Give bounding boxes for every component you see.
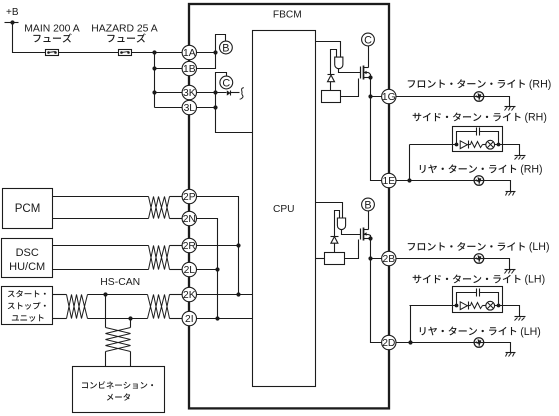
svg-text:(LH): (LH): [520, 326, 541, 338]
resistor (gate/sense): [322, 91, 341, 103]
capacitor branch in side unit: [457, 128, 499, 145]
pin 2N: [182, 211, 196, 225]
wire CAN-L 2N: [197, 219, 218, 319]
label HS-CAN: [100, 277, 140, 288]
svg-text:MAIN 200 A: MAIN 200 A: [24, 23, 80, 34]
svg-text:HAZARD 25 A: HAZARD 25 A: [91, 23, 157, 34]
connector circle B (near 1A): [220, 41, 233, 54]
wire MOSFET drain to connector: [368, 46, 370, 68]
pin 3K: [182, 85, 196, 99]
driver buffer (output stage): [335, 57, 343, 69]
side turn light unit (RH) box: [453, 127, 503, 152]
connector circle B: [362, 198, 375, 211]
label HAZARD 25 A: [91, 23, 157, 34]
junction MOSFET source: [368, 236, 372, 240]
svg-text:B: B: [222, 42, 229, 54]
junction at output pin row: [368, 256, 372, 260]
CPU label: [273, 204, 295, 215]
junction +B: [10, 20, 14, 24]
twisted pair start stop left: [67, 295, 88, 319]
wire to pin 3L: [155, 107, 183, 109]
svg-text:1B: 1B: [183, 64, 196, 75]
label fuse 2: [107, 33, 145, 42]
svg-text:FBCM: FBCM: [273, 10, 302, 21]
junction right: [495, 304, 501, 308]
lamp rear turn RH: [474, 176, 484, 186]
wire to second output pin: [371, 97, 382, 181]
label rear turn light RH: [420, 164, 543, 176]
junction left: [455, 143, 459, 147]
wire PCM CAN-L: [53, 218, 183, 220]
LED lamp in side unit: [483, 301, 495, 310]
pin 2P: [182, 189, 196, 203]
junction 1A node: [213, 50, 217, 54]
svg-text:DSC: DSC: [16, 247, 39, 259]
wire lamp to ground: [484, 97, 510, 107]
wire rear lamp to ground: [484, 181, 511, 192]
start stop unit box: [2, 287, 53, 325]
svg-text:(RH): (RH): [525, 112, 547, 124]
zener diode gate clamp: [328, 75, 335, 91]
svg-text:PCM: PCM: [15, 203, 41, 215]
wire side unit to ground: [499, 306, 520, 317]
twisted pair meter: [106, 328, 131, 352]
svg-text:HU/CM: HU/CM: [9, 261, 45, 273]
wire zener clamp to driver input: [331, 50, 337, 75]
label side turn light LH: [413, 274, 545, 286]
wire source to output pin: [371, 78, 382, 97]
label side turn light RH: [413, 112, 547, 124]
wire branch up to side unit RH: [409, 145, 411, 181]
svg-text:2D: 2D: [382, 338, 395, 349]
wire to pin 3K: [152, 90, 182, 94]
svg-text:2I: 2I: [185, 314, 194, 325]
pin 2L: [182, 262, 196, 276]
twisted pair PCM: [149, 197, 170, 219]
wire 2D to rear lamp LH: [397, 342, 475, 344]
wire rear lamp to ground LH: [484, 343, 511, 353]
side turn light unit (LH) box: [453, 287, 503, 313]
wire source to output pin: [371, 239, 382, 259]
wire 2B to front lamp LH: [397, 258, 475, 260]
svg-text:1A: 1A: [183, 48, 196, 59]
svg-text:2R: 2R: [183, 241, 196, 252]
wire CPU output to driver input: [316, 42, 341, 58]
resistor zigzag in side unit: [471, 303, 483, 309]
junction 3L node: [213, 105, 217, 109]
svg-text:HS-CAN: HS-CAN: [100, 277, 140, 288]
wire 3L to internal node: [197, 107, 216, 109]
junction right: [495, 143, 501, 147]
svg-text:2L: 2L: [184, 265, 196, 276]
battery +B label: [6, 7, 19, 18]
pin 1E: [382, 173, 396, 187]
wire 2L: [197, 267, 220, 271]
wire to second output pin: [371, 259, 382, 343]
svg-text:(RH): (RH): [520, 164, 542, 176]
wire hook to connector C: [216, 73, 227, 93]
svg-text:(LH): (LH): [529, 241, 550, 253]
ground (side RH): [515, 156, 526, 160]
ground (side LH): [515, 317, 526, 321]
svg-text:1G: 1G: [382, 92, 396, 103]
junction MOSFET source: [368, 75, 372, 79]
MOSFET output transistor: [361, 66, 371, 80]
junction fuse output: [152, 50, 156, 54]
wire DSC CAN-L: [53, 269, 183, 271]
svg-text:CPU: CPU: [273, 204, 295, 215]
PCM label: [15, 203, 41, 215]
svg-text:(LH): (LH): [525, 274, 546, 286]
capacitor branch in side unit: [457, 289, 499, 306]
lamp front turn LH: [474, 254, 484, 264]
svg-text:3L: 3L: [184, 103, 196, 114]
pin 2D: [382, 335, 396, 349]
resistor (gate/sense): [325, 253, 345, 265]
pin 2R: [182, 238, 196, 252]
label front turn light LH: [408, 241, 550, 253]
wire driver output to gate: [339, 69, 361, 73]
wire PCM CAN-H: [53, 196, 183, 198]
wire branch up to side unit LH: [410, 306, 412, 343]
svg-text:2K: 2K: [183, 290, 196, 301]
LED lamp in side unit: [483, 140, 495, 149]
wire resistor to CPU sense: [316, 258, 325, 260]
svg-text:(RH): (RH): [529, 79, 551, 91]
svg-text:B: B: [364, 199, 371, 211]
label front turn light RH: [408, 79, 551, 91]
wire start stop CAN-L: [53, 318, 183, 320]
DSC HU/CM box: [2, 239, 53, 278]
fuse MAIN 200 A: [46, 50, 59, 56]
wire side unit to ground: [499, 145, 520, 156]
wire into side unit: [410, 305, 457, 307]
wire into side unit: [410, 144, 457, 146]
ground (front LH): [505, 270, 516, 274]
ground (front RH): [505, 107, 516, 111]
junction left: [455, 304, 459, 308]
wire 1G to front lamp RH: [397, 96, 475, 98]
wire 2R: [197, 243, 241, 247]
junction CAN-H meter branch: [103, 292, 107, 296]
ground (rear LH): [506, 353, 516, 357]
svg-text:C: C: [364, 34, 372, 46]
pin 2B: [382, 251, 396, 265]
wire resistor to gate: [345, 240, 359, 259]
wire resistor to gate: [341, 79, 359, 97]
wire 1E to rear lamp RH: [397, 180, 475, 182]
combination meter label: [82, 381, 153, 400]
diode in side unit: [460, 141, 470, 149]
FBCM module box: [189, 4, 389, 408]
MOSFET output transistor: [361, 228, 371, 241]
pin 1A: [182, 45, 196, 59]
svg-text:2P: 2P: [183, 192, 196, 203]
pin 3L: [182, 100, 196, 114]
wire feed bus down to 3L: [154, 53, 156, 108]
pin 2I: [182, 311, 196, 325]
pin 1B: [182, 61, 196, 75]
diode in side unit: [460, 302, 470, 310]
label fuse 1: [33, 33, 71, 42]
wire zener clamp to driver input: [335, 211, 340, 237]
lamp front turn RH: [474, 92, 484, 102]
junction at output pin row: [368, 94, 372, 98]
wire lamp to ground LH: [484, 259, 510, 270]
svg-text:+B: +B: [6, 7, 19, 18]
wire 3K/3L bus to CPU: [216, 93, 253, 133]
fuse HAZARD 25 A: [119, 50, 132, 56]
driver buffer (output stage): [337, 218, 345, 230]
ground (rear RH): [506, 192, 516, 196]
battery node tick: [5, 22, 19, 24]
junction side branch RH: [407, 178, 411, 182]
label rear turn light LH: [420, 326, 541, 338]
wire start stop CAN-H: [53, 294, 183, 296]
wire hook to connector B: [216, 35, 226, 53]
junction 3K node: [213, 90, 217, 94]
DSC label: [9, 247, 45, 273]
label MAIN 200 A: [24, 23, 80, 34]
wire CPU output to driver input: [316, 203, 343, 219]
combination meter box: [73, 367, 165, 413]
start stop unit label: [8, 290, 46, 322]
svg-text:1E: 1E: [382, 176, 395, 187]
wire +B to fuses to pin 1A: [13, 23, 183, 53]
wire node to 1B: [197, 53, 216, 69]
connector circle C (near 3K): [220, 76, 233, 89]
wire 1A to internal node: [197, 52, 216, 54]
wire CAN-H 2P: [197, 197, 239, 295]
junction side branch LH: [408, 340, 412, 344]
twisted pair start stop right: [148, 295, 170, 319]
twisted pair DSC: [149, 246, 170, 270]
wire meter branch CAN-H: [105, 295, 107, 367]
wire 3K to internal node: [197, 92, 227, 94]
CPU box: [253, 31, 316, 387]
lamp rear turn LH: [474, 338, 484, 348]
FBCM label: [273, 10, 302, 21]
svg-text:2N: 2N: [183, 214, 196, 225]
svg-text:3K: 3K: [183, 88, 196, 99]
wire DSC CAN-H: [53, 245, 183, 247]
wire 2I to CPU: [197, 316, 253, 320]
resistor zigzag in side unit: [471, 142, 483, 148]
wire meter branch CAN-L: [130, 319, 132, 367]
pin 1G: [382, 89, 396, 103]
pin 2K: [182, 287, 196, 301]
wire to pin 1B: [152, 66, 182, 70]
svg-text:2B: 2B: [382, 254, 395, 265]
zener diode gate clamp: [331, 237, 339, 253]
wire break symbol: [240, 88, 244, 100]
junction CAN-L meter branch: [128, 316, 132, 320]
wire 2K to CPU: [197, 292, 253, 296]
diode after 3K: [227, 90, 240, 95]
wire MOSFET drain to connector: [368, 211, 370, 230]
PCM box: [3, 189, 53, 229]
connector circle C: [362, 33, 375, 46]
svg-text:C: C: [222, 77, 230, 89]
wire driver output to gate: [342, 230, 361, 235]
